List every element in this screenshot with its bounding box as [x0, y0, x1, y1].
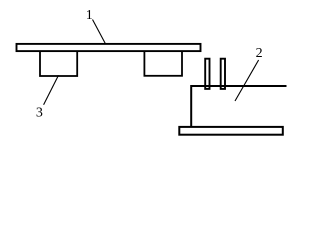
top plate (part 1)	[17, 44, 201, 51]
leader line for label 3	[44, 75, 59, 105]
svg-text:2: 2	[256, 46, 263, 61]
left block (foot) under plate	[40, 51, 77, 76]
pin A on right fixture	[205, 59, 209, 89]
pin B on right fixture	[221, 59, 225, 89]
bottom base bar of right fixture	[179, 127, 282, 135]
right block (foot) under plate	[144, 51, 182, 76]
leader line for label 1	[93, 20, 106, 44]
leader line for label 2	[235, 60, 259, 101]
horizontal top line of right fixture (part 2)	[191, 85, 286, 87]
svg-text:3: 3	[36, 106, 43, 121]
vertical left line of right fixture	[190, 85, 192, 127]
svg-text:1: 1	[86, 8, 93, 23]
